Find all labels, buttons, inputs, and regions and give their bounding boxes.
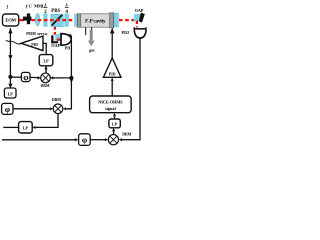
amplifier PID bbox=[103, 58, 121, 77]
svg-text:PD2: PD2 bbox=[122, 30, 130, 35]
DBM2 output wire bbox=[36, 114, 58, 128]
photodetector PD2 bbox=[134, 27, 147, 38]
servo input elbow bbox=[43, 43, 46, 54]
phase shifter phi2 bbox=[2, 103, 13, 114]
svg-text:f-C: f-C bbox=[26, 3, 33, 8]
beam down to PD2 bbox=[136, 21, 138, 28]
svg-text:DBM: DBM bbox=[52, 98, 61, 102]
svg-text:signal: signal bbox=[105, 106, 117, 111]
bottom LO wire bbox=[2, 139, 75, 141]
PDH servo amplifier bbox=[21, 36, 43, 51]
svg-text:DBM: DBM bbox=[122, 132, 131, 136]
cavity input lens bbox=[75, 14, 78, 26]
low-pass LP1 bbox=[4, 88, 16, 98]
low-pass LP2 bbox=[39, 55, 53, 66]
gas arrow bbox=[88, 30, 95, 47]
label lambda/2 bbox=[43, 3, 47, 16]
PZT feedback wire to cavity bbox=[111, 33, 113, 59]
quarter-wave plate bbox=[65, 14, 69, 26]
arrowhead into DBM2 left bbox=[50, 107, 53, 110]
wire phi1 to DBM1 bbox=[30, 76, 38, 78]
svg-text:LP: LP bbox=[43, 58, 49, 63]
junction dot B bbox=[69, 76, 73, 80]
output lens bbox=[114, 13, 118, 27]
PD1 signal wire bbox=[66, 34, 71, 108]
arrowhead up into EOM bbox=[8, 28, 12, 33]
svg-text:OAP: OAP bbox=[135, 8, 144, 13]
arrowhead into DBM2 right bbox=[63, 107, 66, 110]
arrowhead up into LP2 bbox=[44, 66, 47, 69]
gas inlet legs bbox=[85, 27, 87, 35]
DBM3 to LP4 wire bbox=[113, 131, 115, 135]
arrowhead into phi3 bbox=[75, 138, 78, 141]
svg-text:NICE-OHMS: NICE-OHMS bbox=[98, 99, 123, 104]
laser EOM box bbox=[3, 14, 19, 26]
OAP2 mirror bbox=[134, 13, 145, 23]
svg-text:PDH servo: PDH servo bbox=[26, 31, 48, 36]
DBM1 to LP2 wire bbox=[45, 66, 47, 73]
photodetector PD1 bbox=[61, 34, 71, 46]
svg-text:gas: gas bbox=[89, 47, 95, 52]
svg-text:EOM: EOM bbox=[5, 18, 16, 23]
arrowhead into LP3 right bbox=[32, 126, 35, 129]
OAP1 mirror bbox=[51, 34, 62, 43]
mixer DBM2 bbox=[53, 104, 63, 114]
svg-text:LP: LP bbox=[8, 91, 14, 96]
servo output squiggle bbox=[6, 40, 21, 44]
svg-text:PBS: PBS bbox=[51, 9, 60, 14]
arrowhead into cavity bbox=[110, 28, 115, 34]
svg-text:PID: PID bbox=[109, 72, 116, 76]
arrowhead into DBM1 left bbox=[38, 76, 41, 79]
half-wave plate bbox=[44, 14, 47, 26]
mixer DBM3 bbox=[108, 135, 118, 145]
arrowhead up into signal box bbox=[113, 113, 116, 116]
arrowhead up into PID bbox=[111, 78, 114, 81]
arrowhead down mid bbox=[8, 55, 12, 60]
F-P cavity bbox=[78, 13, 114, 28]
svg-text:φ: φ bbox=[23, 72, 28, 82]
arrowhead into DBM3 left bbox=[105, 138, 108, 141]
svg-text:LP: LP bbox=[112, 122, 118, 127]
svg-text:LP: LP bbox=[23, 125, 29, 130]
EOM drive line bbox=[9, 28, 11, 88]
arrow into DBM3 right bbox=[119, 138, 122, 141]
PBS bbox=[51, 14, 63, 26]
mixer DBM1 bbox=[41, 73, 51, 83]
signal box to PID wire bbox=[111, 81, 113, 96]
svg-text:φ: φ bbox=[82, 135, 87, 145]
svg-text:MML: MML bbox=[34, 3, 45, 8]
wire phi2 to DBM2 bbox=[13, 108, 50, 110]
PD2 wire down to DBM3 bbox=[122, 38, 140, 140]
beam EOM to coupler bbox=[19, 19, 24, 21]
wire DBM1 to junction B bbox=[50, 77, 71, 79]
beam OAP1 to PD1 bbox=[57, 39, 61, 41]
MML lens bbox=[35, 13, 40, 26]
svg-text:PID: PID bbox=[31, 43, 38, 47]
reflected beam down from PBS bbox=[54, 27, 56, 35]
LP4 to signal box wire bbox=[114, 116, 116, 119]
label lambda/4 bbox=[65, 3, 69, 16]
arrowhead down below junction B bbox=[70, 79, 74, 83]
main beam dashed bbox=[32, 19, 78, 21]
arrowhead up into LP4 bbox=[112, 128, 115, 131]
svg-text:φ: φ bbox=[5, 104, 10, 114]
svg-text:F-P cavity: F-P cavity bbox=[85, 18, 106, 24]
NICE-OHMS signal box bbox=[90, 96, 132, 113]
LP3 output wire bbox=[3, 126, 18, 128]
arrowhead into DBM1 right bbox=[50, 76, 53, 79]
low-pass LP4 bbox=[109, 119, 120, 128]
wire dotA to phi1 bbox=[10, 76, 21, 78]
transmitted beam bbox=[119, 19, 137, 21]
low-pass LP3 bbox=[19, 122, 33, 133]
fiber coupler f-C bbox=[23, 13, 31, 24]
wire phi3 to DBM3 bbox=[90, 139, 105, 141]
arrowhead down into LP1 bbox=[8, 84, 12, 88]
phase shifter phi1 bbox=[21, 72, 30, 82]
svg-text:DBM: DBM bbox=[40, 84, 49, 88]
svg-text:OAP: OAP bbox=[51, 43, 60, 48]
junction dot A bbox=[8, 75, 12, 79]
phase shifter phi3 bbox=[79, 134, 91, 146]
